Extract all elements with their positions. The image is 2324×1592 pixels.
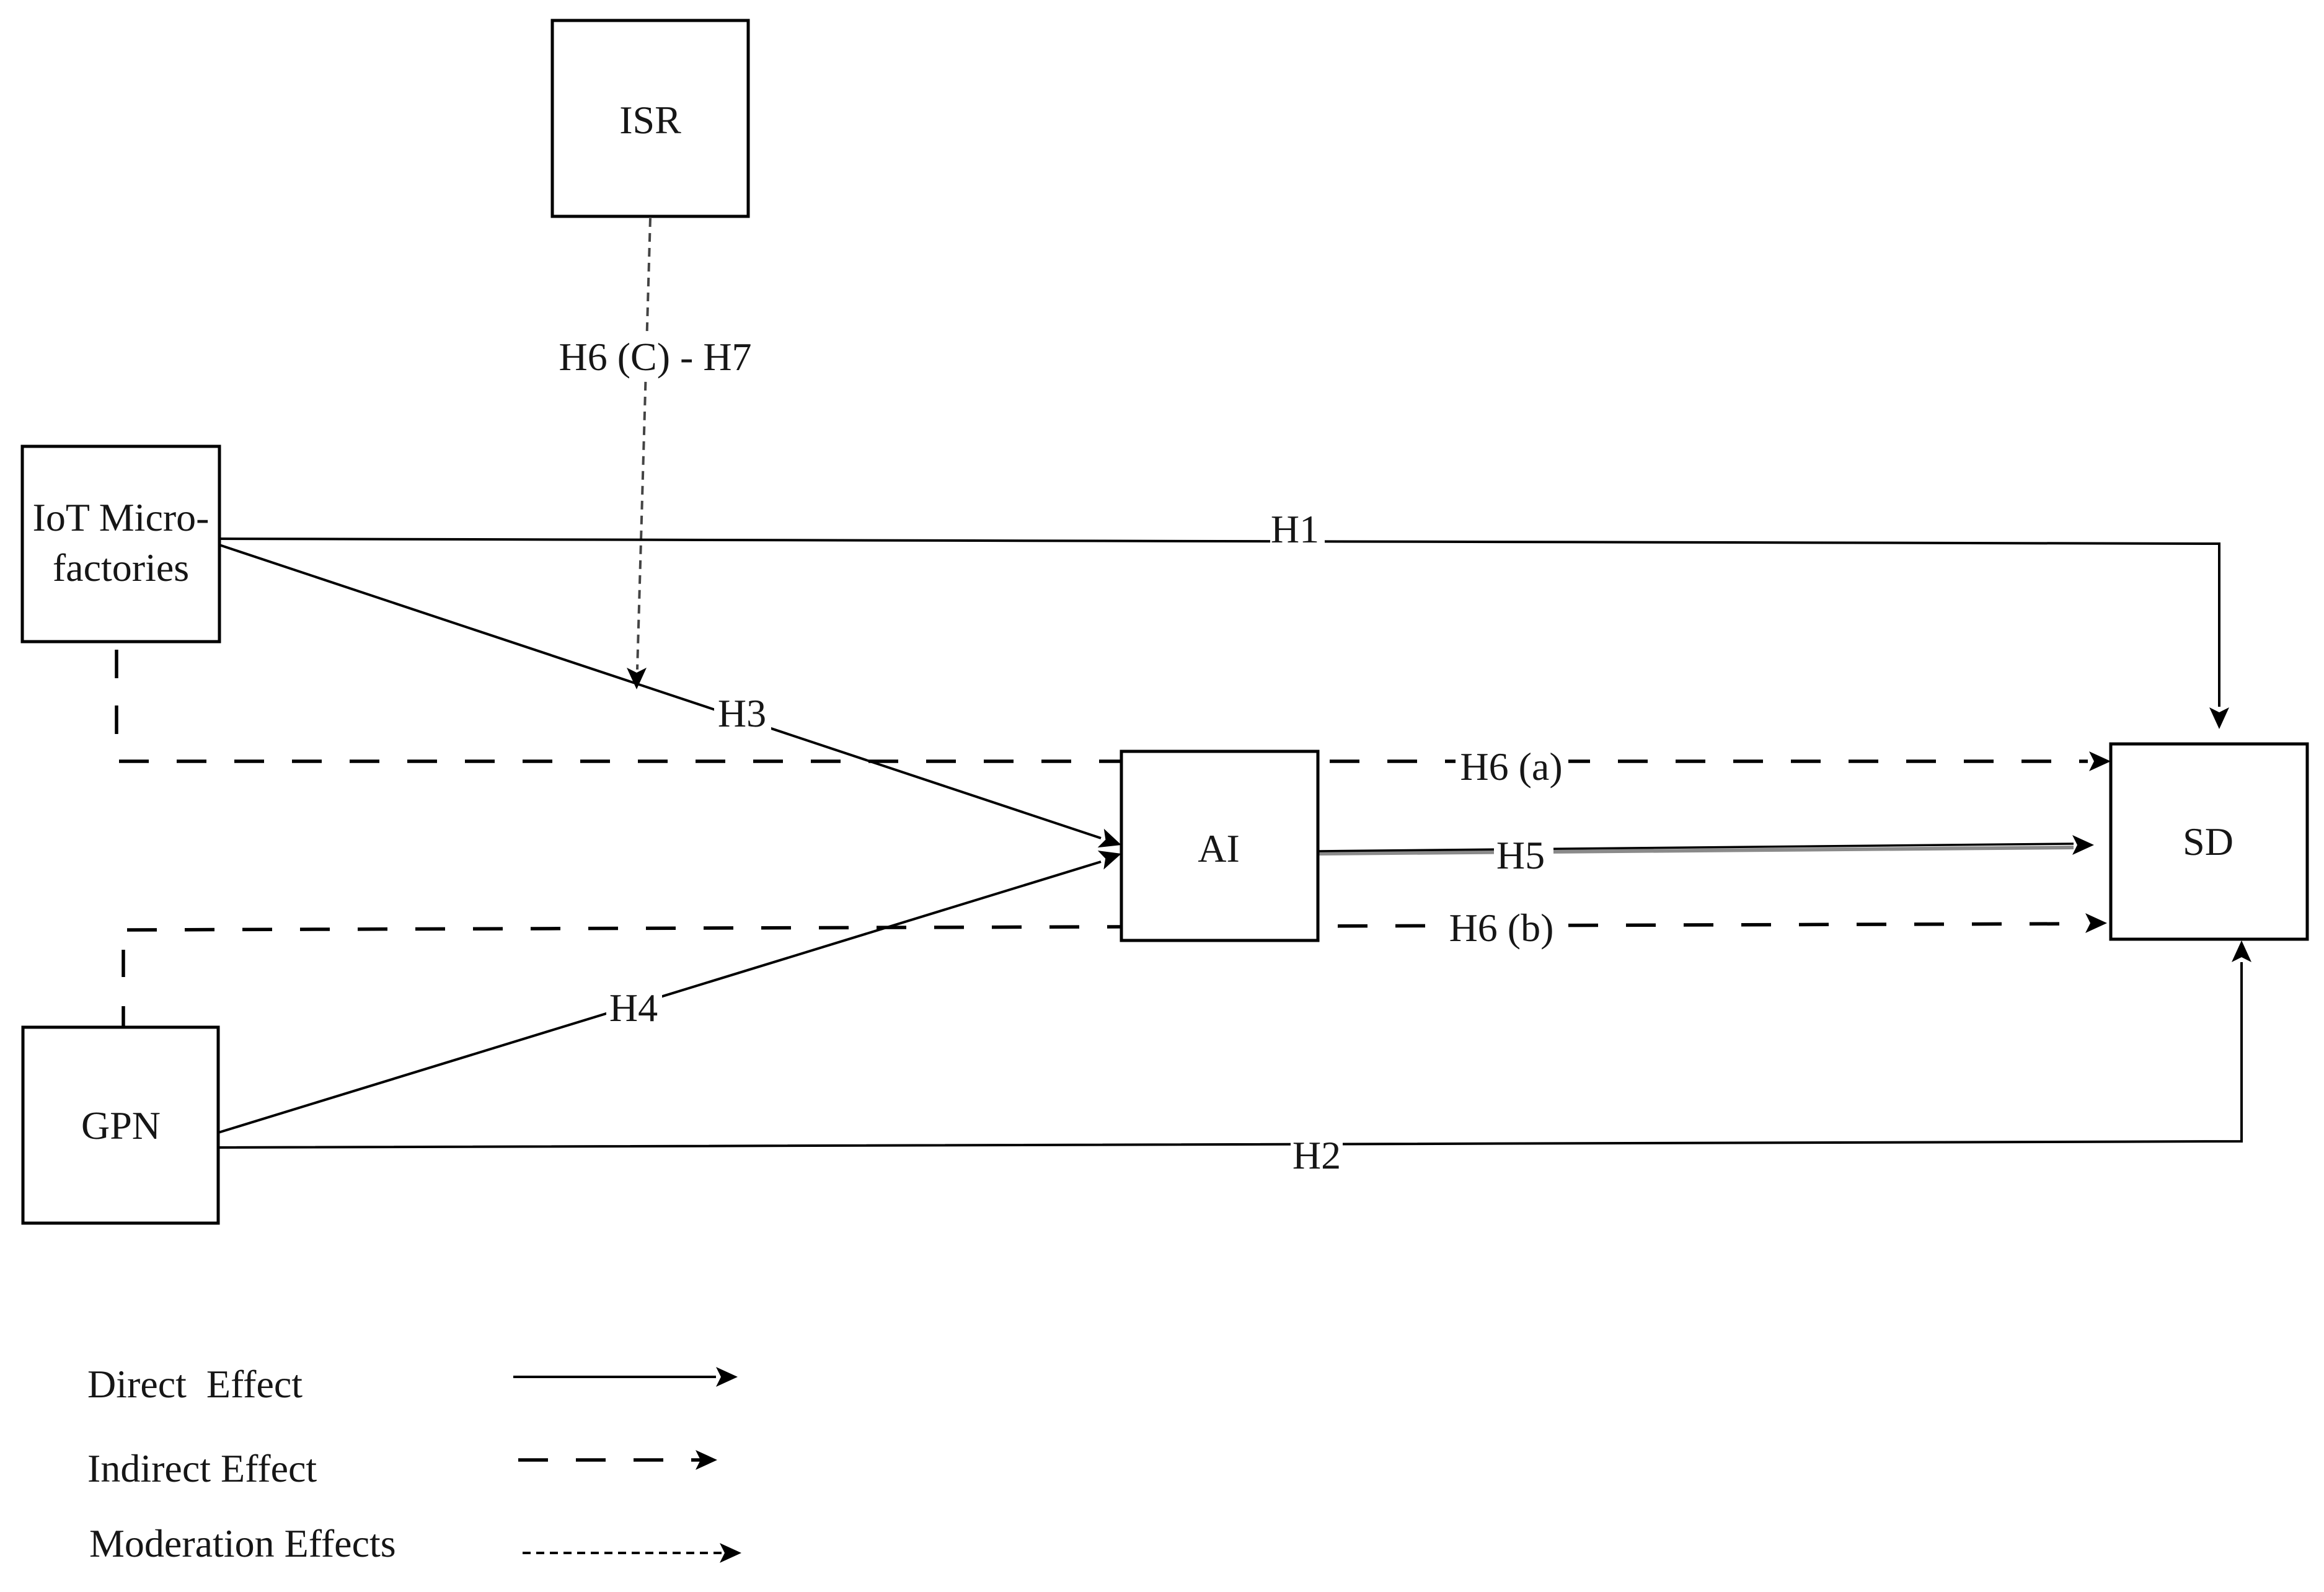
dashed indirect line H6 (b) GPN to SD <box>127 913 2107 933</box>
svg-text:H6 (b): H6 (b) <box>1449 906 1554 950</box>
legend solid arrow <box>513 1367 738 1387</box>
svg-text:H2: H2 <box>1292 1133 1341 1177</box>
box IoT Micro-factories <box>22 446 219 642</box>
legend dotted arrow <box>523 1543 741 1563</box>
direct arrow H2 GPN to SD bottom <box>217 940 2251 1148</box>
box ISR <box>552 20 748 216</box>
svg-text:H6 (a): H6 (a) <box>1460 745 1562 789</box>
svg-text:GPN: GPN <box>81 1103 161 1148</box>
svg-text:H6 (C) - H7: H6 (C) - H7 <box>559 335 751 379</box>
label H6 (C) - H7 <box>558 332 755 381</box>
label H6 (a) <box>1456 745 1568 789</box>
svg-text:H3: H3 <box>718 691 766 735</box>
dashed vertical connector IoT bottom to H6 (a) <box>115 650 118 761</box>
legend label Indirect Effect <box>87 1446 317 1490</box>
label H2 <box>1291 1133 1343 1177</box>
legend dashed arrow <box>518 1450 717 1470</box>
svg-text:H1: H1 <box>1271 507 1319 551</box>
box AI <box>1121 751 1318 940</box>
svg-text:Moderation Effects: Moderation Effects <box>89 1521 396 1565</box>
svg-text:IoT Micro-: IoT Micro- <box>33 495 210 539</box>
label H6 (b) <box>1447 906 1560 950</box>
svg-text:Indirect Effect: Indirect Effect <box>87 1446 317 1490</box>
svg-text:SD: SD <box>2183 820 2233 864</box>
box GPN <box>23 1027 218 1223</box>
svg-text:H4: H4 <box>609 986 658 1030</box>
svg-text:H5: H5 <box>1496 833 1545 877</box>
dashed vertical connector H6 (b) to GPN top <box>122 950 125 1027</box>
dotted moderation arrow from ISR to H3 line <box>627 218 650 689</box>
label H4 <box>606 986 662 1030</box>
label H5 <box>1494 833 1553 877</box>
direct arrow H5 AI to SD (gray/black) <box>1319 835 2094 855</box>
label H1 <box>1270 507 1325 551</box>
direct arrow H3 IoT to AI <box>219 545 1121 847</box>
legend label Moderation Effects <box>89 1521 396 1565</box>
legend label Direct Effect <box>87 1362 303 1406</box>
dashed indirect line H6 (a) IoT to SD <box>119 751 2111 771</box>
direct arrow H1 IoT to SD top <box>219 539 2229 729</box>
svg-text:AI: AI <box>1198 826 1240 870</box>
box SD <box>2111 744 2307 939</box>
label H3 <box>714 691 771 735</box>
svg-text:Direct Effect: Direct Effect <box>87 1362 303 1406</box>
svg-text:ISR: ISR <box>619 98 681 142</box>
svg-text:factories: factories <box>53 546 189 590</box>
direct arrow H4 GPN to AI <box>218 851 1121 1133</box>
